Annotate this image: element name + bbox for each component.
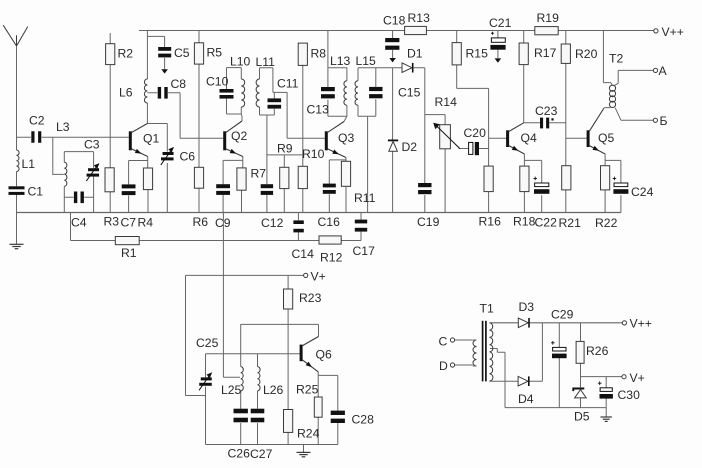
wire — [227, 68, 243, 121]
wire — [206, 324, 338, 444]
transistor Q6 — [300, 337, 319, 372]
svg-text:C29: C29 — [551, 307, 574, 321]
inductor L3 — [64, 162, 67, 186]
wire — [16, 46, 18, 213]
transistor Q1 — [129, 124, 148, 157]
polarity mark — [551, 118, 553, 120]
wire — [457, 31, 507, 213]
resistor R22 — [601, 166, 610, 190]
capacitor C21 — [490, 32, 505, 63]
capacitor C30 — [598, 381, 613, 398]
wire — [53, 137, 64, 174]
svg-text:R10: R10 — [302, 147, 325, 161]
svg-text:R23: R23 — [299, 291, 322, 305]
diode D4 — [518, 376, 529, 386]
ground — [10, 213, 24, 249]
resistor R6 — [194, 167, 203, 188]
wire — [459, 148, 489, 150]
capacitor C12 — [261, 184, 273, 195]
wire — [392, 31, 394, 213]
capacitor C11 — [268, 98, 282, 108]
svg-text:D1: D1 — [407, 46, 423, 60]
svg-text:C2: C2 — [29, 113, 45, 127]
svg-text:Б: Б — [660, 114, 668, 128]
wire — [186, 275, 304, 409]
svg-text:C23: C23 — [535, 104, 558, 118]
wire — [17, 136, 129, 138]
svg-text:R15: R15 — [466, 46, 489, 60]
svg-text:L11: L11 — [256, 55, 276, 69]
resistor R3 — [105, 168, 114, 192]
svg-text:L10: L10 — [230, 54, 251, 68]
wire — [328, 31, 347, 122]
terminal C — [450, 338, 454, 342]
terminal V+ — [304, 273, 308, 277]
wire — [559, 323, 622, 408]
capacitor C5 — [158, 47, 171, 74]
wire — [109, 33, 111, 213]
svg-text:D: D — [439, 359, 448, 373]
inductor L11 — [256, 79, 259, 107]
terminal D — [450, 363, 454, 367]
svg-text:V+: V+ — [630, 371, 645, 385]
transistor Q5 — [587, 108, 606, 154]
svg-text:C22: C22 — [535, 215, 558, 229]
svg-text:R16: R16 — [479, 214, 502, 228]
capacitor C28 — [331, 411, 345, 423]
svg-text:V+: V+ — [311, 269, 326, 283]
svg-text:R14: R14 — [435, 95, 458, 109]
svg-text:D4: D4 — [518, 392, 534, 406]
capacitor C23 — [540, 118, 549, 129]
svg-text:C30: C30 — [618, 388, 641, 402]
resistor R18 — [520, 166, 529, 192]
resistor R7 — [237, 168, 246, 190]
capacitor C8 — [158, 87, 168, 99]
capacitor C14 — [293, 220, 303, 232]
svg-text:D5: D5 — [574, 409, 590, 423]
capacitor C10 — [220, 89, 234, 99]
inductor L1 — [17, 150, 20, 172]
variable capacitor C3 — [86, 163, 99, 181]
svg-text:C14: C14 — [292, 247, 315, 261]
svg-text:C19: C19 — [417, 215, 440, 229]
svg-text:C18: C18 — [383, 13, 406, 27]
svg-text:C15: C15 — [398, 85, 421, 99]
svg-text:R11: R11 — [354, 191, 376, 205]
wire — [260, 68, 325, 139]
wire — [490, 322, 623, 324]
wire — [605, 160, 621, 212]
resistor R15 — [452, 43, 461, 65]
svg-text:C: C — [439, 334, 448, 348]
ground — [600, 408, 612, 422]
svg-text:R3: R3 — [104, 214, 120, 228]
wire — [267, 65, 303, 212]
svg-text:C3: C3 — [84, 137, 100, 151]
capacitor C9 — [216, 184, 230, 195]
svg-text:R13: R13 — [408, 11, 431, 25]
wire — [497, 31, 499, 38]
diode D2 — [388, 140, 398, 151]
wire — [454, 340, 472, 365]
inductor L25 — [241, 367, 244, 391]
wire — [147, 31, 223, 213]
resistor R11 — [341, 161, 350, 186]
wire — [198, 31, 200, 213]
capacitor C1 — [9, 186, 25, 195]
svg-text:R1: R1 — [121, 246, 137, 260]
svg-text:C7: C7 — [121, 215, 137, 229]
variable capacitor C6 — [161, 147, 174, 165]
resistor R5 — [194, 43, 203, 64]
capacitor C4 — [74, 192, 84, 204]
wire — [603, 31, 653, 121]
wire — [524, 31, 587, 213]
svg-text:C16: C16 — [318, 215, 341, 229]
wire — [524, 160, 541, 212]
svg-text:V++: V++ — [662, 25, 684, 39]
svg-text:C10: C10 — [206, 74, 229, 88]
resistor R17 — [519, 43, 528, 65]
svg-text:R21: R21 — [559, 216, 582, 230]
svg-text:L6: L6 — [119, 85, 133, 99]
capacitor C24 — [613, 177, 629, 194]
svg-text:C11: C11 — [277, 76, 299, 90]
capacitor C18 — [385, 38, 399, 62]
wire — [129, 157, 148, 213]
capacitor C20 — [469, 142, 479, 155]
svg-text:T2: T2 — [609, 51, 623, 65]
capacitor C27 — [251, 409, 265, 423]
svg-text:C21: C21 — [489, 16, 512, 30]
svg-text:L13: L13 — [330, 54, 351, 68]
wire — [71, 213, 362, 241]
wire — [523, 154, 525, 160]
svg-text:R4: R4 — [138, 215, 154, 229]
wire — [223, 213, 240, 378]
capacitor C22 — [533, 177, 549, 194]
svg-text:D3: D3 — [519, 300, 535, 314]
capacitor C26 — [234, 409, 248, 423]
svg-text:R17: R17 — [534, 46, 557, 60]
wire — [17, 212, 622, 214]
resistor R2 — [106, 44, 115, 65]
svg-text:Q1: Q1 — [143, 131, 159, 145]
capacitor C29 — [551, 341, 567, 358]
svg-text:C28: C28 — [352, 412, 375, 426]
terminal V++ — [622, 321, 626, 325]
svg-text:R5: R5 — [207, 45, 223, 59]
svg-text:R26: R26 — [586, 344, 609, 358]
transistor Q3 — [325, 122, 346, 158]
svg-text:C6: C6 — [180, 149, 196, 163]
capacitor C7 — [122, 184, 136, 195]
svg-text:R22: R22 — [595, 216, 618, 230]
wire — [206, 354, 300, 445]
resistor R16 — [484, 166, 493, 192]
svg-text:Q5: Q5 — [598, 131, 614, 145]
svg-text:L26: L26 — [263, 383, 284, 397]
resistor R19 — [535, 27, 558, 35]
wire — [139, 30, 654, 32]
resistor R24 — [284, 410, 293, 433]
svg-text:R7: R7 — [251, 166, 267, 180]
transformer T1 — [473, 321, 493, 382]
svg-text:L3: L3 — [56, 120, 70, 134]
svg-text:R24: R24 — [297, 426, 320, 440]
resistor R23 — [284, 289, 293, 309]
diode D3 — [518, 318, 529, 328]
inductor L10 — [241, 79, 244, 107]
svg-text:L1: L1 — [22, 157, 36, 171]
wire — [223, 157, 243, 213]
resistor R13 — [405, 26, 427, 34]
svg-text:R19: R19 — [537, 11, 560, 25]
svg-text:R2: R2 — [118, 46, 134, 60]
wire — [490, 323, 543, 381]
resistor R12 — [319, 236, 341, 244]
svg-text:R18: R18 — [513, 214, 536, 228]
resistor R25 — [314, 397, 322, 417]
svg-text:Q3: Q3 — [338, 131, 354, 145]
svg-text:C12: C12 — [261, 216, 284, 230]
wire — [240, 324, 318, 444]
svg-text:L25: L25 — [221, 383, 242, 397]
resistor R1 — [115, 237, 139, 245]
terminal V+ — [622, 375, 626, 379]
svg-text:T1: T1 — [480, 301, 494, 315]
antenna — [3, 25, 28, 46]
svg-text:D2: D2 — [402, 140, 418, 154]
resistor R26 — [576, 341, 584, 363]
diode D1 — [402, 63, 413, 73]
resistor R21 — [562, 166, 571, 190]
svg-text:L15: L15 — [356, 54, 377, 68]
resistor R8 — [298, 43, 307, 65]
capacitor C19 — [418, 183, 431, 194]
resistor R20 — [561, 44, 570, 63]
inductor L26 — [258, 367, 261, 391]
capacitor C2 — [31, 131, 41, 143]
transistor Q2 — [223, 121, 243, 157]
svg-text:R6: R6 — [193, 215, 209, 229]
resistor R9 — [280, 167, 289, 188]
resistor R4 — [143, 168, 152, 190]
ground — [297, 445, 311, 457]
svg-text:C24: C24 — [631, 185, 654, 199]
svg-text:C4: C4 — [71, 215, 87, 229]
inductor L6 — [144, 79, 147, 103]
svg-text:R12: R12 — [320, 250, 343, 264]
svg-text:C27: C27 — [250, 447, 273, 461]
svg-text:Q4: Q4 — [521, 131, 537, 145]
wire — [490, 349, 505, 408]
wire — [358, 68, 445, 213]
svg-text:Q2: Q2 — [231, 129, 247, 143]
svg-text:C13: C13 — [307, 102, 330, 116]
svg-text:C20: C20 — [464, 126, 487, 140]
svg-text:R9: R9 — [277, 141, 293, 155]
svg-text:C9: C9 — [215, 216, 231, 230]
svg-text:C17: C17 — [353, 244, 376, 258]
svg-text:R20: R20 — [575, 47, 598, 61]
svg-text:C25: C25 — [196, 336, 219, 350]
resistor R10 — [298, 166, 307, 188]
inductor L15 — [355, 81, 358, 106]
terminal V++ — [654, 29, 658, 33]
wire — [329, 158, 346, 213]
svg-text:C5: C5 — [174, 46, 190, 60]
wire — [64, 152, 93, 213]
svg-text:A: A — [659, 64, 668, 78]
svg-text:C8: C8 — [171, 77, 187, 91]
capacitor C16 — [323, 184, 336, 194]
wire — [505, 407, 606, 409]
inductor L13 — [344, 81, 347, 106]
svg-text:C26: C26 — [228, 446, 251, 460]
svg-text:C1: C1 — [28, 184, 44, 198]
zener diode D5 — [573, 389, 586, 398]
variable resistor R14 — [433, 123, 460, 149]
capacitor C13 — [321, 87, 335, 98]
wire — [604, 154, 606, 160]
svg-text:R8: R8 — [311, 46, 327, 60]
svg-text:R25: R25 — [296, 382, 319, 396]
svg-text:Q6: Q6 — [316, 347, 332, 361]
capacitor C15 — [369, 87, 382, 98]
terminal A — [653, 68, 657, 72]
transformer T2 — [609, 85, 615, 107]
terminal B — [653, 118, 657, 122]
capacitor C17 — [355, 220, 367, 232]
transistor Q4 — [506, 123, 524, 154]
variable capacitor C25 — [199, 372, 212, 390]
svg-text:V++: V++ — [630, 316, 652, 330]
